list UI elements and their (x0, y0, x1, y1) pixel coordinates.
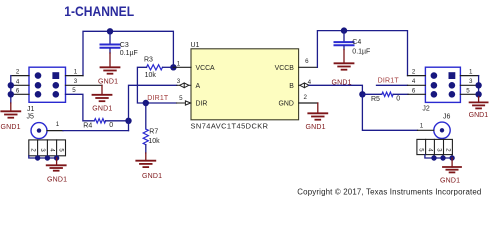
svg-text:6: 6 (412, 87, 416, 94)
node J1 bus row3 (8, 91, 14, 97)
resistor R4 (83, 119, 113, 130)
wire J6 shield ground bus (425, 155, 452, 158)
wire U1 pin6 lead (299, 66, 318, 68)
svg-text:GND1: GND1 (1, 124, 21, 131)
svg-text:6: 6 (305, 58, 309, 65)
node C4 junction (341, 27, 347, 33)
svg-text:GND1: GND1 (469, 112, 489, 119)
svg-text:4: 4 (16, 78, 20, 85)
coax connector J5 (27, 113, 48, 138)
ground J1 bus (1, 103, 21, 131)
wire J1 pin3 lead to ground (66, 84, 103, 86)
svg-text:GND1: GND1 (142, 173, 162, 180)
node DIR1T (143, 100, 149, 106)
wire J6 pin1 lead (418, 129, 434, 131)
wire U1 pin1 lead (173, 66, 191, 68)
svg-text:1-CHANNEL: 1-CHANNEL (64, 4, 134, 20)
svg-text:1: 1 (177, 60, 181, 67)
wire U1 pin2 lead (299, 102, 318, 104)
svg-text:1: 1 (469, 68, 473, 75)
pin U1.3 A diamond marker (177, 83, 191, 88)
svg-text:Copyright © 2017, Texas Instru: Copyright © 2017, Texas Instruments Inco… (297, 187, 481, 196)
wire J2 right ground bus (478, 76, 480, 97)
svg-text:J6: J6 (443, 114, 451, 121)
capacitor C4 (335, 31, 371, 56)
svg-text:1: 1 (420, 123, 424, 130)
ground under C3 (98, 53, 120, 86)
svg-text:U1: U1 (191, 42, 200, 49)
wire R4 to node (106, 120, 129, 122)
svg-text:R4: R4 (83, 122, 92, 129)
svg-text:A: A (196, 83, 201, 90)
svg-text:DIR1T: DIR1T (147, 95, 169, 102)
ground under R7 (136, 153, 162, 180)
wire node down to J6 (362, 94, 417, 130)
wire J2 pin3 lead (460, 84, 478, 86)
svg-text:3: 3 (177, 78, 181, 85)
svg-text:C4: C4 (352, 39, 361, 46)
svg-text:0.1µF: 0.1µF (352, 48, 370, 55)
op IC U1 (191, 42, 299, 130)
svg-text:GND1: GND1 (306, 124, 326, 131)
svg-text:2: 2 (16, 69, 20, 76)
svg-text:R5: R5 (371, 96, 380, 103)
svg-text:R3: R3 (144, 57, 153, 64)
svg-text:6: 6 (16, 87, 20, 94)
wire J2 pin6 lead (408, 93, 425, 95)
svg-text:VCCA: VCCA (196, 65, 216, 72)
svg-text:10k: 10k (145, 72, 157, 79)
svg-text:10k: 10k (148, 138, 160, 145)
svg-text:GND: GND (278, 101, 293, 108)
svg-text:DIR1T: DIR1T (378, 77, 400, 84)
svg-text:4: 4 (412, 78, 416, 85)
node J5 shield (35, 155, 40, 160)
connector J1 (27, 67, 66, 113)
node J6 shield (431, 155, 436, 160)
node J2 bus row3 (475, 91, 481, 97)
svg-text:DIR: DIR (196, 101, 208, 108)
wire J1 pin5 to R4 (66, 94, 95, 121)
svg-text:3: 3 (74, 78, 78, 85)
node A net (125, 118, 131, 124)
wire DIR1T stub to J2.4 (377, 84, 408, 86)
wire J1 left ground bus (10, 76, 12, 103)
svg-text:1: 1 (56, 121, 60, 128)
capacitor C3 (101, 31, 138, 57)
svg-text:GND1: GND1 (47, 177, 67, 184)
svg-text:J2: J2 (422, 105, 430, 112)
wire J5 shield ground bus (29, 156, 57, 158)
wire J2 pin1 lead (460, 75, 478, 77)
ground J2 bus (469, 97, 489, 119)
resistor R5 (371, 92, 400, 103)
wire J2 pin2 lead (408, 75, 426, 77)
svg-text:0: 0 (109, 122, 113, 129)
svg-text:5: 5 (72, 87, 76, 94)
wire J1 pin6 lead (12, 93, 29, 95)
pin U1.5 DIR arrow marker (177, 101, 191, 105)
wire A net vertical and to U1 pin A (129, 85, 177, 130)
resistor R7 (143, 103, 160, 153)
wire J1 pin2 lead (12, 75, 29, 77)
wire J2 pin4 lead (408, 84, 426, 86)
pin U1.4 B diamond marker (299, 83, 309, 88)
svg-text:3: 3 (469, 78, 473, 85)
svg-text:1: 1 (74, 68, 78, 75)
wire VCCA top (J1.1 to U1 VCCA) (83, 31, 173, 75)
resistor R3 (144, 57, 170, 79)
ground U1 pin2 (306, 103, 328, 131)
svg-text:J5: J5 (27, 113, 35, 120)
wire J5 pin1 lead (47, 130, 63, 132)
ground under C4 (332, 50, 354, 87)
wire R5 to J2.6 (393, 93, 408, 95)
svg-text:5: 5 (466, 87, 470, 94)
node J1 bus row2 (8, 82, 14, 88)
svg-text:5: 5 (179, 95, 183, 102)
wire DIR1T left (R3 left down to DIR pin) (137, 67, 176, 103)
J5 shield pins 2 3 4 5 (29, 140, 66, 158)
ground under J1 pin3 (92, 85, 112, 112)
wire J2 pin5 lead (460, 93, 478, 95)
svg-text:2: 2 (412, 68, 416, 75)
svg-text:SN74AVC1T45DCKR: SN74AVC1T45DCKR (191, 121, 269, 130)
connector J2 (422, 67, 460, 112)
wire J5 to A node (63, 130, 129, 132)
wire B net (U1.4 to R5 node and J6) (309, 85, 362, 94)
svg-text:0.1µF: 0.1µF (120, 50, 138, 57)
svg-text:2: 2 (303, 94, 307, 101)
J6 shield pins 5 4 3 2 (417, 139, 453, 158)
ground J5 (47, 158, 67, 184)
node B/R5/J6 (359, 91, 365, 97)
svg-text:R7: R7 (149, 129, 158, 136)
node C3 junction (107, 28, 113, 34)
ground J6 (440, 158, 461, 184)
wire node to R5 (362, 93, 381, 95)
svg-text:GND1: GND1 (440, 177, 460, 184)
svg-text:C3: C3 (120, 42, 129, 49)
coax connector J6 (434, 114, 451, 139)
svg-text:GND1: GND1 (92, 106, 112, 113)
wire VCCB top (U1.6 to J2.2) (317, 31, 407, 76)
svg-text:VCCB: VCCB (275, 65, 295, 72)
node VCCA junction (170, 64, 176, 70)
node J2 bus row2 (475, 82, 481, 88)
svg-text:0: 0 (396, 96, 400, 103)
svg-text:GND1: GND1 (98, 79, 118, 86)
wire J1 pin4 lead (12, 84, 29, 86)
wire J1 pin1 lead (66, 75, 84, 77)
svg-text:B: B (289, 83, 294, 90)
svg-text:J1: J1 (27, 106, 35, 113)
